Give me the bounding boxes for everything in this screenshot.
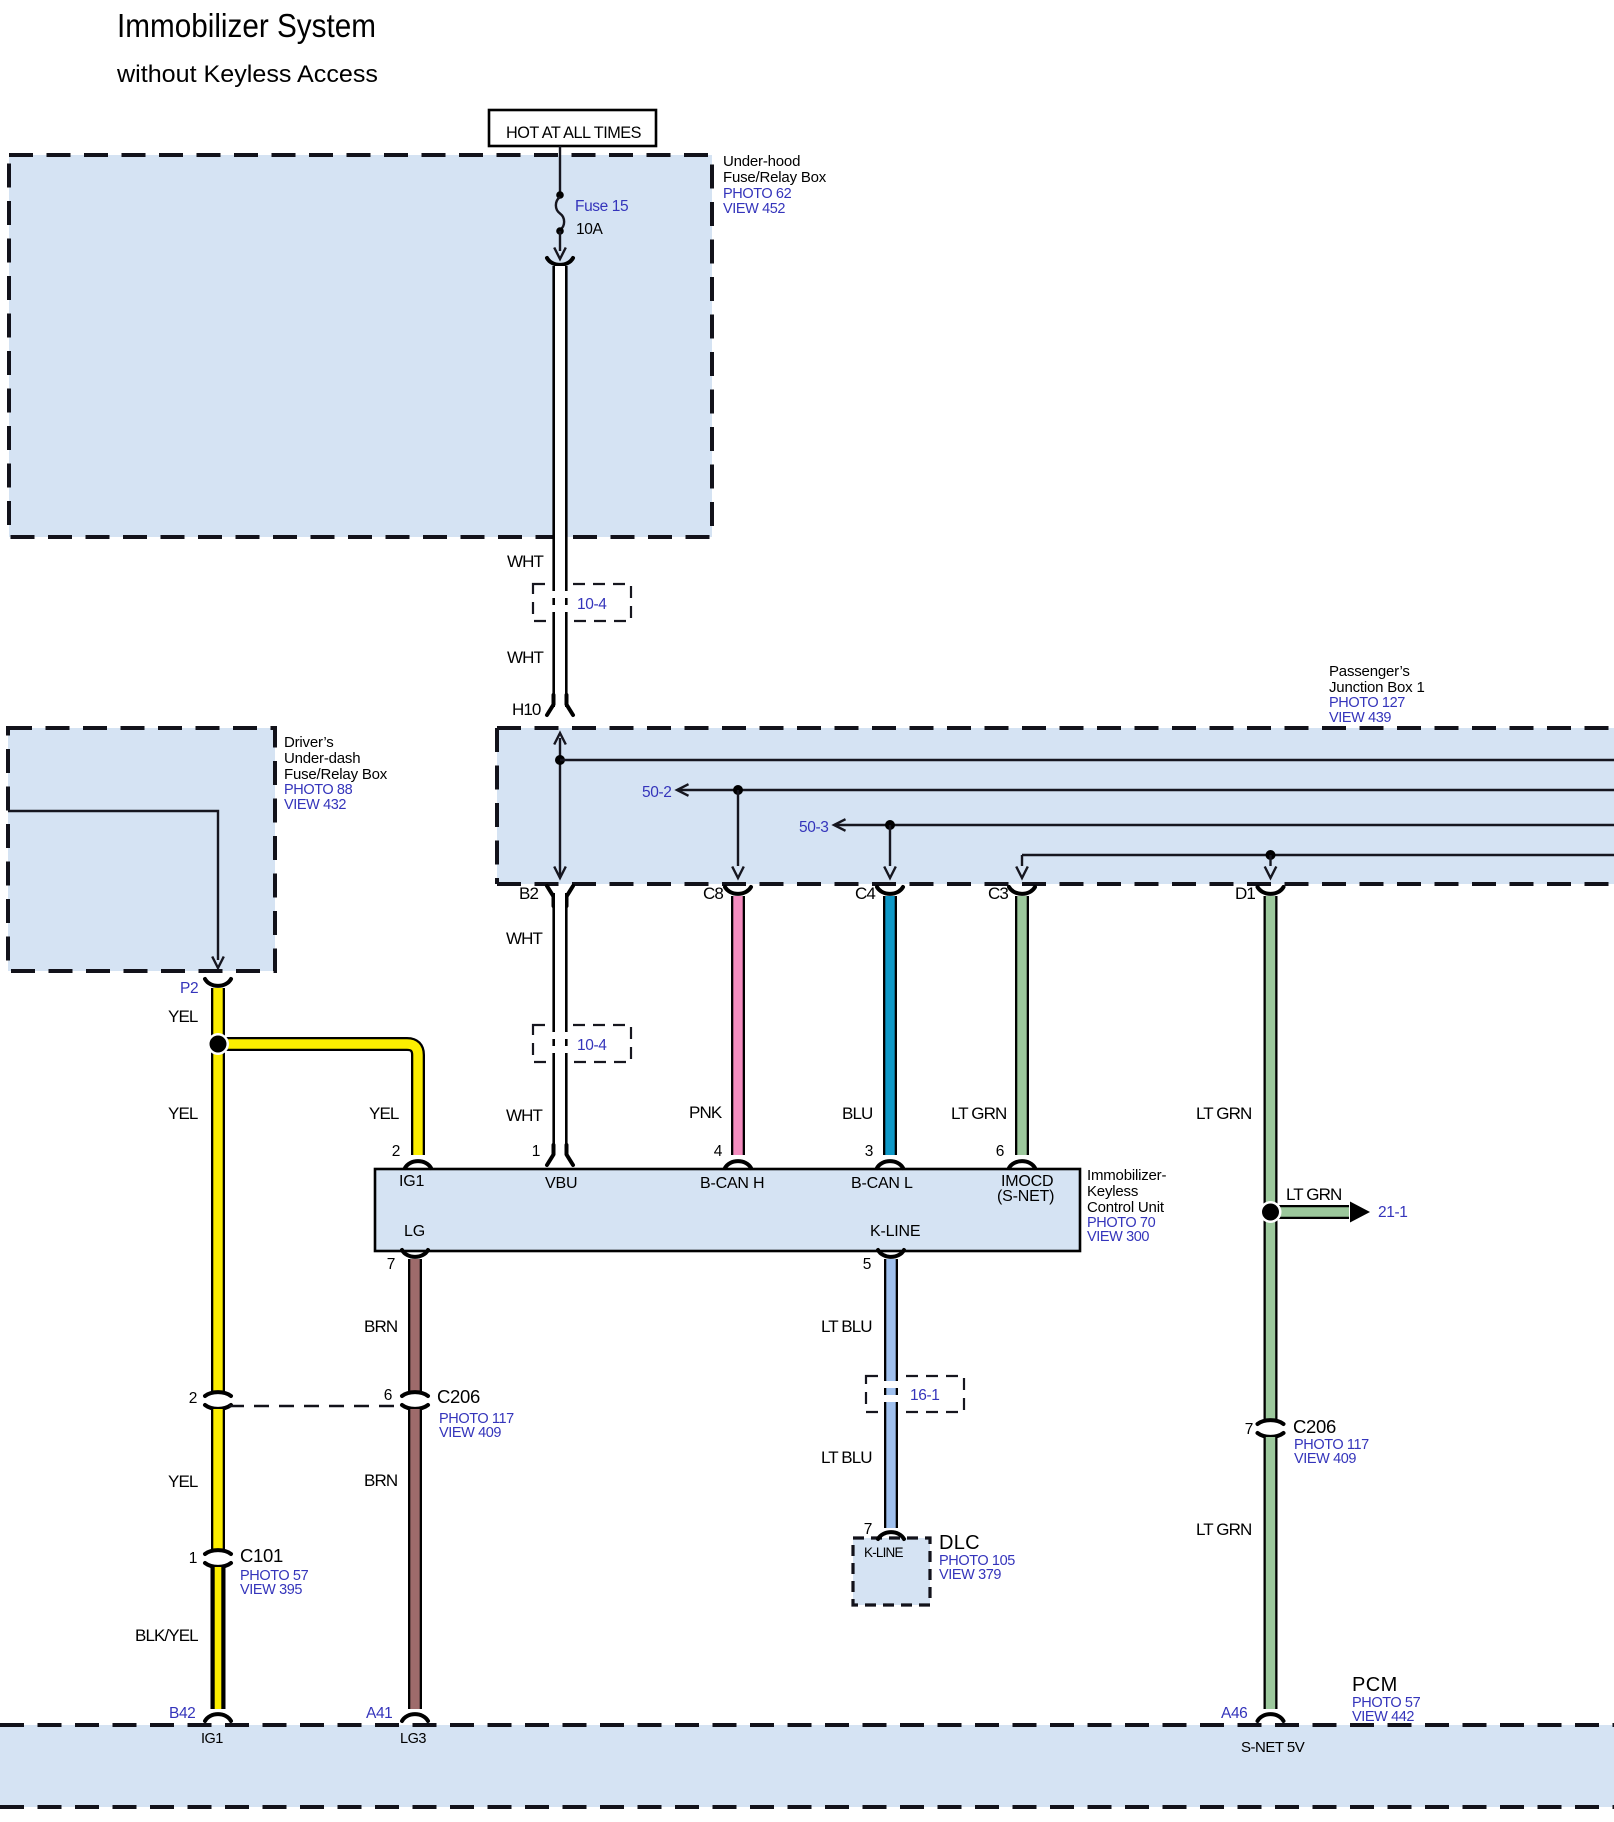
Driver's box internal wire to P2 <box>8 811 224 968</box>
svg-text:without Keyless Access: without Keyless Access <box>116 61 378 88</box>
label: Under-hood box <box>723 153 827 217</box>
svg-text:YEL: YEL <box>369 1104 399 1123</box>
svg-text:K-LINE: K-LINE <box>870 1223 920 1240</box>
svg-text:Fuse/Relay Box: Fuse/Relay Box <box>284 766 388 783</box>
svg-text:50-3: 50-3 <box>799 819 828 836</box>
connector pin 7 LG <box>402 1250 428 1257</box>
svg-text:10-4: 10-4 <box>577 1037 607 1054</box>
fuse F15 10A <box>556 191 564 251</box>
labels: junction box terminals <box>519 884 1255 903</box>
svg-text:VIEW 452: VIEW 452 <box>723 201 785 217</box>
connector H10 <box>547 695 573 715</box>
svg-text:LG: LG <box>404 1223 425 1240</box>
svg-text:BRN: BRN <box>364 1317 397 1336</box>
connector C8 <box>725 887 751 894</box>
svg-text:VIEW 379: VIEW 379 <box>939 1567 1001 1583</box>
connector P2 <box>205 979 231 986</box>
svg-text:VIEW 439: VIEW 439 <box>1329 710 1391 726</box>
pin numbers above control unit <box>392 1143 1004 1160</box>
svg-text:Keyless: Keyless <box>1087 1183 1138 1200</box>
svg-text:Passenger’s: Passenger’s <box>1329 663 1410 680</box>
svg-text:5: 5 <box>863 1256 871 1273</box>
svg-text:Fuse/Relay Box: Fuse/Relay Box <box>723 169 827 186</box>
svg-text:6: 6 <box>384 1387 392 1404</box>
svg-text:VIEW 409: VIEW 409 <box>439 1425 501 1441</box>
wire: C3/D1 feed branch <box>1016 850 1614 878</box>
wire color labels row <box>168 1103 1251 1125</box>
svg-text:Driver’s: Driver’s <box>284 734 334 751</box>
labels: C206 LT GRN <box>1245 1416 1369 1467</box>
connector C206 (LT GRN) pin 7 <box>1258 1420 1284 1437</box>
svg-text:B2: B2 <box>519 884 538 903</box>
labels: PCM pin names <box>201 1731 1305 1756</box>
label: DLC <box>939 1532 1015 1583</box>
svg-text:PCM: PCM <box>1352 1674 1398 1696</box>
svg-text:A46: A46 <box>1221 1705 1247 1722</box>
label: Fuse 15 10A <box>575 198 628 238</box>
label: Passenger's Junction Box 1 <box>1329 663 1425 726</box>
svg-text:PHOTO 62: PHOTO 62 <box>723 186 792 202</box>
wire PNK: C8 to B-CAN H pin 4 <box>731 896 745 1155</box>
wire BRN: C206 to PCM A41 <box>408 1409 422 1709</box>
wire LT GRN: C3 to IMOCD pin 6 <box>1015 896 1029 1155</box>
svg-text:YEL: YEL <box>168 1007 198 1026</box>
DLC connector box <box>853 1538 930 1605</box>
svg-text:Control Unit: Control Unit <box>1087 1199 1165 1216</box>
pin numbers below control unit <box>387 1256 871 1273</box>
connector C4 <box>877 887 903 894</box>
svg-text:50-2: 50-2 <box>642 784 671 801</box>
wire LT GRN: D1 down to C206 <box>1264 896 1278 1419</box>
svg-text:VBU: VBU <box>545 1175 577 1192</box>
HOT AT ALL TIMES power tag <box>489 110 656 146</box>
label: control unit <box>1087 1167 1166 1245</box>
svg-text:B42: B42 <box>169 1705 195 1722</box>
connector pin 1 VBU <box>547 1145 573 1165</box>
connector A41 <box>402 1714 428 1721</box>
wire: 50-3 branch <box>834 819 1614 878</box>
pin names in control unit <box>399 1173 1054 1240</box>
svg-text:LG3: LG3 <box>400 1731 426 1747</box>
svg-text:4: 4 <box>714 1143 723 1160</box>
svg-text:3: 3 <box>865 1143 873 1160</box>
label: PCM <box>1352 1674 1421 1725</box>
svg-text:B-CAN H: B-CAN H <box>700 1175 764 1192</box>
svg-text:C101: C101 <box>240 1545 283 1566</box>
connector C206 (YEL) pin 2 <box>205 1392 231 1409</box>
svg-text:VIEW 432: VIEW 432 <box>284 797 346 813</box>
svg-text:DLC: DLC <box>939 1532 980 1554</box>
arrow to 21-1 <box>1350 1202 1370 1223</box>
wire: dashed link between C206 halves <box>229 1405 403 1408</box>
connector B42 <box>205 1714 231 1721</box>
connector A46 <box>1258 1714 1284 1721</box>
connector pin 2 IG1 <box>405 1161 431 1168</box>
arrow from fuse to wire <box>554 248 566 260</box>
svg-text:WHT: WHT <box>506 1106 543 1125</box>
svg-text:C206: C206 <box>437 1386 480 1407</box>
svg-text:C8: C8 <box>703 884 723 903</box>
svg-text:(S-NET): (S-NET) <box>997 1188 1054 1205</box>
svg-text:PHOTO 127: PHOTO 127 <box>1329 695 1405 711</box>
svg-text:Under-dash: Under-dash <box>284 750 360 767</box>
in-line connector 10-4 bracket upper <box>533 584 631 621</box>
svg-text:VIEW 409: VIEW 409 <box>1294 1451 1356 1467</box>
svg-text:BLU: BLU <box>842 1104 872 1123</box>
svg-text:BRN: BRN <box>364 1471 397 1490</box>
svg-text:C206: C206 <box>1293 1416 1336 1437</box>
wire WHT: B2 to VBU pin 1 (double line) <box>550 893 570 1155</box>
svg-text:B-CAN L: B-CAN L <box>851 1175 913 1192</box>
labels: C206 YEL/BRN <box>189 1386 514 1441</box>
svg-text:1: 1 <box>189 1550 197 1567</box>
svg-text:VIEW 395: VIEW 395 <box>240 1582 302 1598</box>
svg-text:H10: H10 <box>512 700 541 719</box>
Immobilizer-Keyless Control Unit U1 <box>375 1169 1080 1251</box>
connector B2 <box>547 886 573 906</box>
svg-text:C3: C3 <box>988 884 1008 903</box>
svg-text:S-NET 5V: S-NET 5V <box>1241 1739 1305 1756</box>
connector pin 3 B-CAN L <box>877 1161 903 1168</box>
connector D1 <box>1258 887 1284 894</box>
svg-text:BLK/YEL: BLK/YEL <box>135 1626 198 1645</box>
svg-text:2: 2 <box>392 1143 400 1160</box>
svg-text:YEL: YEL <box>168 1104 198 1123</box>
svg-text:VIEW 442: VIEW 442 <box>1352 1709 1414 1725</box>
node: junction dot on YEL wire <box>207 1033 229 1055</box>
svg-text:Fuse 15: Fuse 15 <box>575 198 628 215</box>
wire LT GRN: C206 to PCM A46 <box>1264 1437 1278 1709</box>
svg-text:YEL: YEL <box>168 1472 198 1491</box>
in-line connector 10-4 bracket lower <box>533 1025 631 1062</box>
connector pin 4 B-CAN H <box>725 1161 751 1168</box>
svg-text:WHT: WHT <box>507 552 544 571</box>
wire LT BLU: K-LINE pin 5 to DLC <box>883 1259 899 1528</box>
svg-text:Immobilizer-: Immobilizer- <box>1087 1167 1166 1184</box>
svg-text:21-1: 21-1 <box>1378 1204 1407 1221</box>
wire YEL: branch to IG1 pin 2 <box>218 1044 418 1155</box>
svg-text:VIEW 300: VIEW 300 <box>1087 1229 1149 1245</box>
svg-text:C4: C4 <box>855 884 875 903</box>
connector pin 5 K-LINE <box>878 1250 904 1257</box>
svg-text:LT GRN: LT GRN <box>1196 1104 1251 1123</box>
svg-text:LT BLU: LT BLU <box>821 1317 872 1336</box>
svg-text:WHT: WHT <box>506 929 543 948</box>
wire LT GRN: branch to 21-1 <box>1271 1205 1350 1219</box>
svg-text:Junction Box 1: Junction Box 1 <box>1329 679 1425 696</box>
connector C206 (BRN) pin 6 <box>402 1392 428 1409</box>
wire BLU: C4 to B-CAN L pin 3 <box>883 896 897 1155</box>
in-line connector 16-1 bracket <box>866 1376 964 1412</box>
wire BLK/YEL: C101 to PCM B42 <box>211 1567 226 1709</box>
svg-text:LT BLU: LT BLU <box>821 1448 872 1467</box>
svg-text:A41: A41 <box>366 1705 392 1722</box>
svg-text:K-LINE: K-LINE <box>864 1545 904 1560</box>
svg-text:Immobilizer System: Immobilizer System <box>117 7 376 44</box>
svg-text:Under-hood: Under-hood <box>723 153 800 170</box>
svg-text:HOT AT ALL TIMES: HOT AT ALL TIMES <box>506 123 641 142</box>
PCM box <box>0 1725 1614 1807</box>
svg-text:LT GRN: LT GRN <box>1196 1520 1251 1539</box>
svg-text:PHOTO 88: PHOTO 88 <box>284 782 353 798</box>
svg-text:IG1: IG1 <box>399 1173 424 1190</box>
svg-text:7: 7 <box>1245 1421 1253 1438</box>
svg-text:IG1: IG1 <box>201 1731 223 1747</box>
wire: HOT feed into fuse <box>559 146 561 195</box>
svg-text:7: 7 <box>387 1256 395 1273</box>
label: Driver's box <box>284 734 388 813</box>
node: junction dot on vertical bus <box>555 755 565 765</box>
svg-text:7: 7 <box>864 1521 872 1538</box>
svg-text:LT GRN: LT GRN <box>1286 1185 1341 1204</box>
wire: 50-2 branch <box>677 784 1614 878</box>
wire: horizontal feed to right edge <box>560 759 1614 761</box>
svg-text:LT GRN: LT GRN <box>951 1104 1006 1123</box>
Passenger junction box internal: vertical bus at H10/B2 <box>554 733 566 878</box>
wire BRN: LG pin 7 to C206 <box>408 1259 422 1391</box>
Driver's Under-dash Fuse/Relay Box <box>8 728 275 971</box>
node: junction dot on LT GRN wire <box>1260 1201 1282 1223</box>
svg-text:10-4: 10-4 <box>577 596 607 613</box>
connector cup at fuse output <box>547 258 573 265</box>
svg-text:PNK: PNK <box>689 1103 723 1122</box>
svg-text:1: 1 <box>532 1143 540 1160</box>
wire YEL: P2 down to C206 <box>211 988 225 1391</box>
svg-text:6: 6 <box>996 1143 1004 1160</box>
connector DLC pin 7 <box>878 1532 904 1539</box>
svg-text:D1: D1 <box>1235 884 1255 903</box>
svg-text:16-1: 16-1 <box>910 1387 939 1404</box>
Passenger's Junction Box 1 <box>497 728 1614 884</box>
connector C101 pin 1 <box>205 1550 231 1567</box>
svg-text:WHT: WHT <box>507 648 544 667</box>
wire YEL: C206 to C101 <box>211 1409 225 1549</box>
connector pin 6 IMOCD <box>1009 1161 1035 1168</box>
connector C3 <box>1009 887 1035 894</box>
svg-text:10A: 10A <box>576 221 603 238</box>
labels: C101 <box>189 1545 309 1598</box>
labels: PCM terminals <box>169 1705 1247 1722</box>
wire WHT: fuse to H10 (double line) <box>550 266 570 707</box>
svg-text:P2: P2 <box>180 980 198 997</box>
Under-hood Fuse/Relay Box <box>9 155 712 537</box>
svg-text:2: 2 <box>189 1390 197 1407</box>
